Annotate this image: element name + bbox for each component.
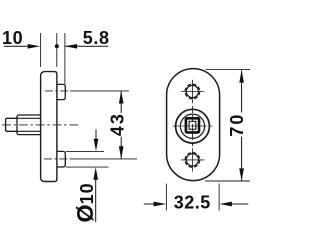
dim 70 arrow up bbox=[239, 70, 244, 83]
svg-text:70: 70 bbox=[227, 113, 247, 137]
dim 70 line bbox=[241, 70, 243, 180]
dim 5.8 arrowhead bbox=[65, 44, 78, 49]
dim 70 top leader bbox=[206, 69, 251, 71]
bottom hole centerline cross bbox=[191, 148, 193, 171]
dim 32.5 left arrowhead bbox=[154, 202, 167, 207]
centerline of spindle (side view) bbox=[2, 124, 79, 126]
plate (side view) bbox=[41, 72, 57, 182]
top screw boss (side view) bbox=[57, 84, 65, 99]
dim 70 arrow down bbox=[239, 168, 244, 181]
svg-text:43: 43 bbox=[107, 112, 127, 136]
dim dia10 upper arrowhead (down) bbox=[94, 139, 99, 152]
square spindle socket inner bbox=[189, 121, 196, 129]
dim 5.8 line bbox=[65, 45, 108, 47]
svg-text:5.8: 5.8 bbox=[83, 28, 110, 48]
label 43 bbox=[110, 113, 124, 137]
svg-text:32.5: 32.5 bbox=[174, 193, 211, 213]
dim 43 top leader (centerline of top boss) bbox=[45, 90, 70, 92]
dim 32.5 right arrowhead bbox=[219, 202, 232, 207]
extension line boss right face bbox=[64, 33, 66, 84]
dim dia10 lower arrow tail bbox=[95, 178, 97, 222]
middle boss inner circle bbox=[180, 114, 204, 138]
top hole centerline cross bbox=[191, 80, 193, 104]
dim 43 bottom leader (centerline of bottom boss) bbox=[44, 158, 70, 160]
dim 10 line bbox=[4, 45, 30, 47]
spindle body (side view) bbox=[17, 115, 41, 135]
dim dia10 top leader (boss top edge) bbox=[66, 150, 104, 152]
dim 70 bottom leader bbox=[205, 180, 250, 182]
label 70 bbox=[231, 112, 244, 136]
spindle body corner line lower bbox=[17, 130, 41, 132]
dim 32.5 right extension line bbox=[218, 184, 220, 211]
dim 32.5 left extension line bbox=[165, 184, 167, 211]
dim 10 arrowhead bbox=[28, 44, 41, 49]
common point dot bbox=[55, 44, 59, 48]
dim dia10 bottom leader (boss bottom edge) bbox=[66, 166, 109, 168]
extension line plate right face bbox=[56, 33, 58, 67]
middle boss outer circle bbox=[176, 109, 210, 143]
dim 43 arrow up bbox=[119, 91, 124, 104]
svg-text:10: 10 bbox=[2, 28, 23, 48]
dim 32.5 left arrow tail bbox=[144, 203, 155, 205]
bottom screw boss (side view) bbox=[57, 151, 65, 167]
obround face plate (front view) bbox=[167, 69, 220, 181]
top screw hole bbox=[186, 85, 198, 97]
dim dia10 lower arrowhead (up) bbox=[93, 167, 98, 180]
dim dia10 upper arrow tail bbox=[95, 130, 97, 142]
spindle body corner line upper bbox=[17, 117, 41, 119]
top screw hole serration bbox=[185, 84, 200, 99]
spindle tip (side view) bbox=[6, 118, 17, 131]
extension line plate left face bbox=[40, 33, 42, 67]
bottom screw hole bbox=[186, 154, 198, 166]
dim 32.5 right arrow tail bbox=[231, 203, 248, 205]
square spindle socket outer bbox=[186, 118, 199, 132]
bottom screw hole serration bbox=[185, 153, 200, 168]
dim 43 arrow down bbox=[119, 146, 124, 159]
middle centerline cross bbox=[192, 106, 194, 146]
dim 43 line bbox=[120, 91, 122, 158]
